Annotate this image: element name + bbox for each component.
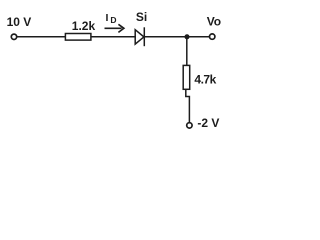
svg-text:1.2k: 1.2k bbox=[72, 19, 96, 33]
node: -2 V terminal bbox=[187, 123, 192, 128]
wire: R1 to diode anode bbox=[91, 36, 136, 38]
node: 10 V input terminal bbox=[11, 34, 16, 39]
node: Vo output terminal bbox=[210, 34, 215, 39]
junction node (dot) bbox=[184, 34, 189, 39]
resistor R1 (1.2k box) bbox=[65, 34, 91, 41]
wire: source terminal to R1 bbox=[17, 36, 66, 38]
resistor R2 (4.7k box) bbox=[183, 65, 190, 89]
svg-text:Vo: Vo bbox=[207, 15, 221, 29]
diode D1 (Si) bbox=[135, 27, 144, 46]
wire: junction down to R2 bbox=[186, 37, 188, 66]
wire: R2 to -2 V terminal (with jog) bbox=[186, 89, 190, 123]
svg-text:4.7k: 4.7k bbox=[194, 73, 216, 87]
svg-text:10 V: 10 V bbox=[7, 15, 32, 29]
current arrow I_D bbox=[105, 24, 124, 32]
wire: diode cathode to output terminal bbox=[145, 36, 209, 38]
svg-text:Si: Si bbox=[136, 10, 147, 24]
svg-text:-2 V: -2 V bbox=[197, 116, 219, 130]
svg-text:ID: ID bbox=[106, 12, 117, 25]
